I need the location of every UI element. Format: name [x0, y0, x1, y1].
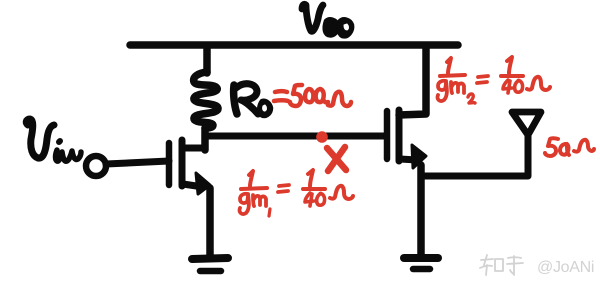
ground (right)	[404, 258, 438, 269]
Q1 channel bar	[179, 140, 186, 186]
label Vin	[26, 119, 81, 161]
Q1 gate bar	[166, 143, 173, 185]
Q1 source arrow	[196, 173, 210, 194]
Q1 drain wire	[182, 145, 205, 152]
Q2 source arrow	[412, 145, 426, 168]
watermark	[480, 255, 523, 275]
node wire to M2 gate	[205, 133, 386, 140]
value RD = 500 ohm (red)	[274, 85, 351, 106]
svg-text:@JoANi: @JoANi	[537, 259, 594, 276]
Q2 source wire	[400, 159, 417, 160]
antenna symbol	[512, 112, 541, 135]
input terminal circle	[86, 156, 106, 176]
Q1 source wire	[183, 184, 203, 187]
load label 50 ohm (red)	[545, 138, 594, 156]
label RD	[234, 84, 271, 116]
annotation 1/gm1 = 1/40 ohm (red)	[239, 170, 353, 216]
transistor Q1	[106, 140, 205, 187]
Q2 gate bar	[384, 111, 391, 159]
Q2 drain wire	[399, 48, 426, 115]
VDD rail	[130, 41, 458, 49]
wire source to antenna	[421, 134, 528, 176]
label VDD	[302, 4, 352, 36]
node X dot (red)	[316, 131, 328, 143]
Q2 channel bar	[396, 110, 403, 161]
annotation 1/gm2 = 1/40 ohm (red)	[437, 57, 550, 103]
wire Q1 source to ground	[206, 188, 214, 257]
resistor RD	[194, 48, 218, 150]
wire Q2 source to ground	[417, 165, 425, 257]
node X mark (red)	[327, 147, 346, 171]
ground (left)	[192, 258, 228, 271]
Q1 gate wire	[106, 161, 169, 164]
transistor Q2	[387, 48, 426, 161]
